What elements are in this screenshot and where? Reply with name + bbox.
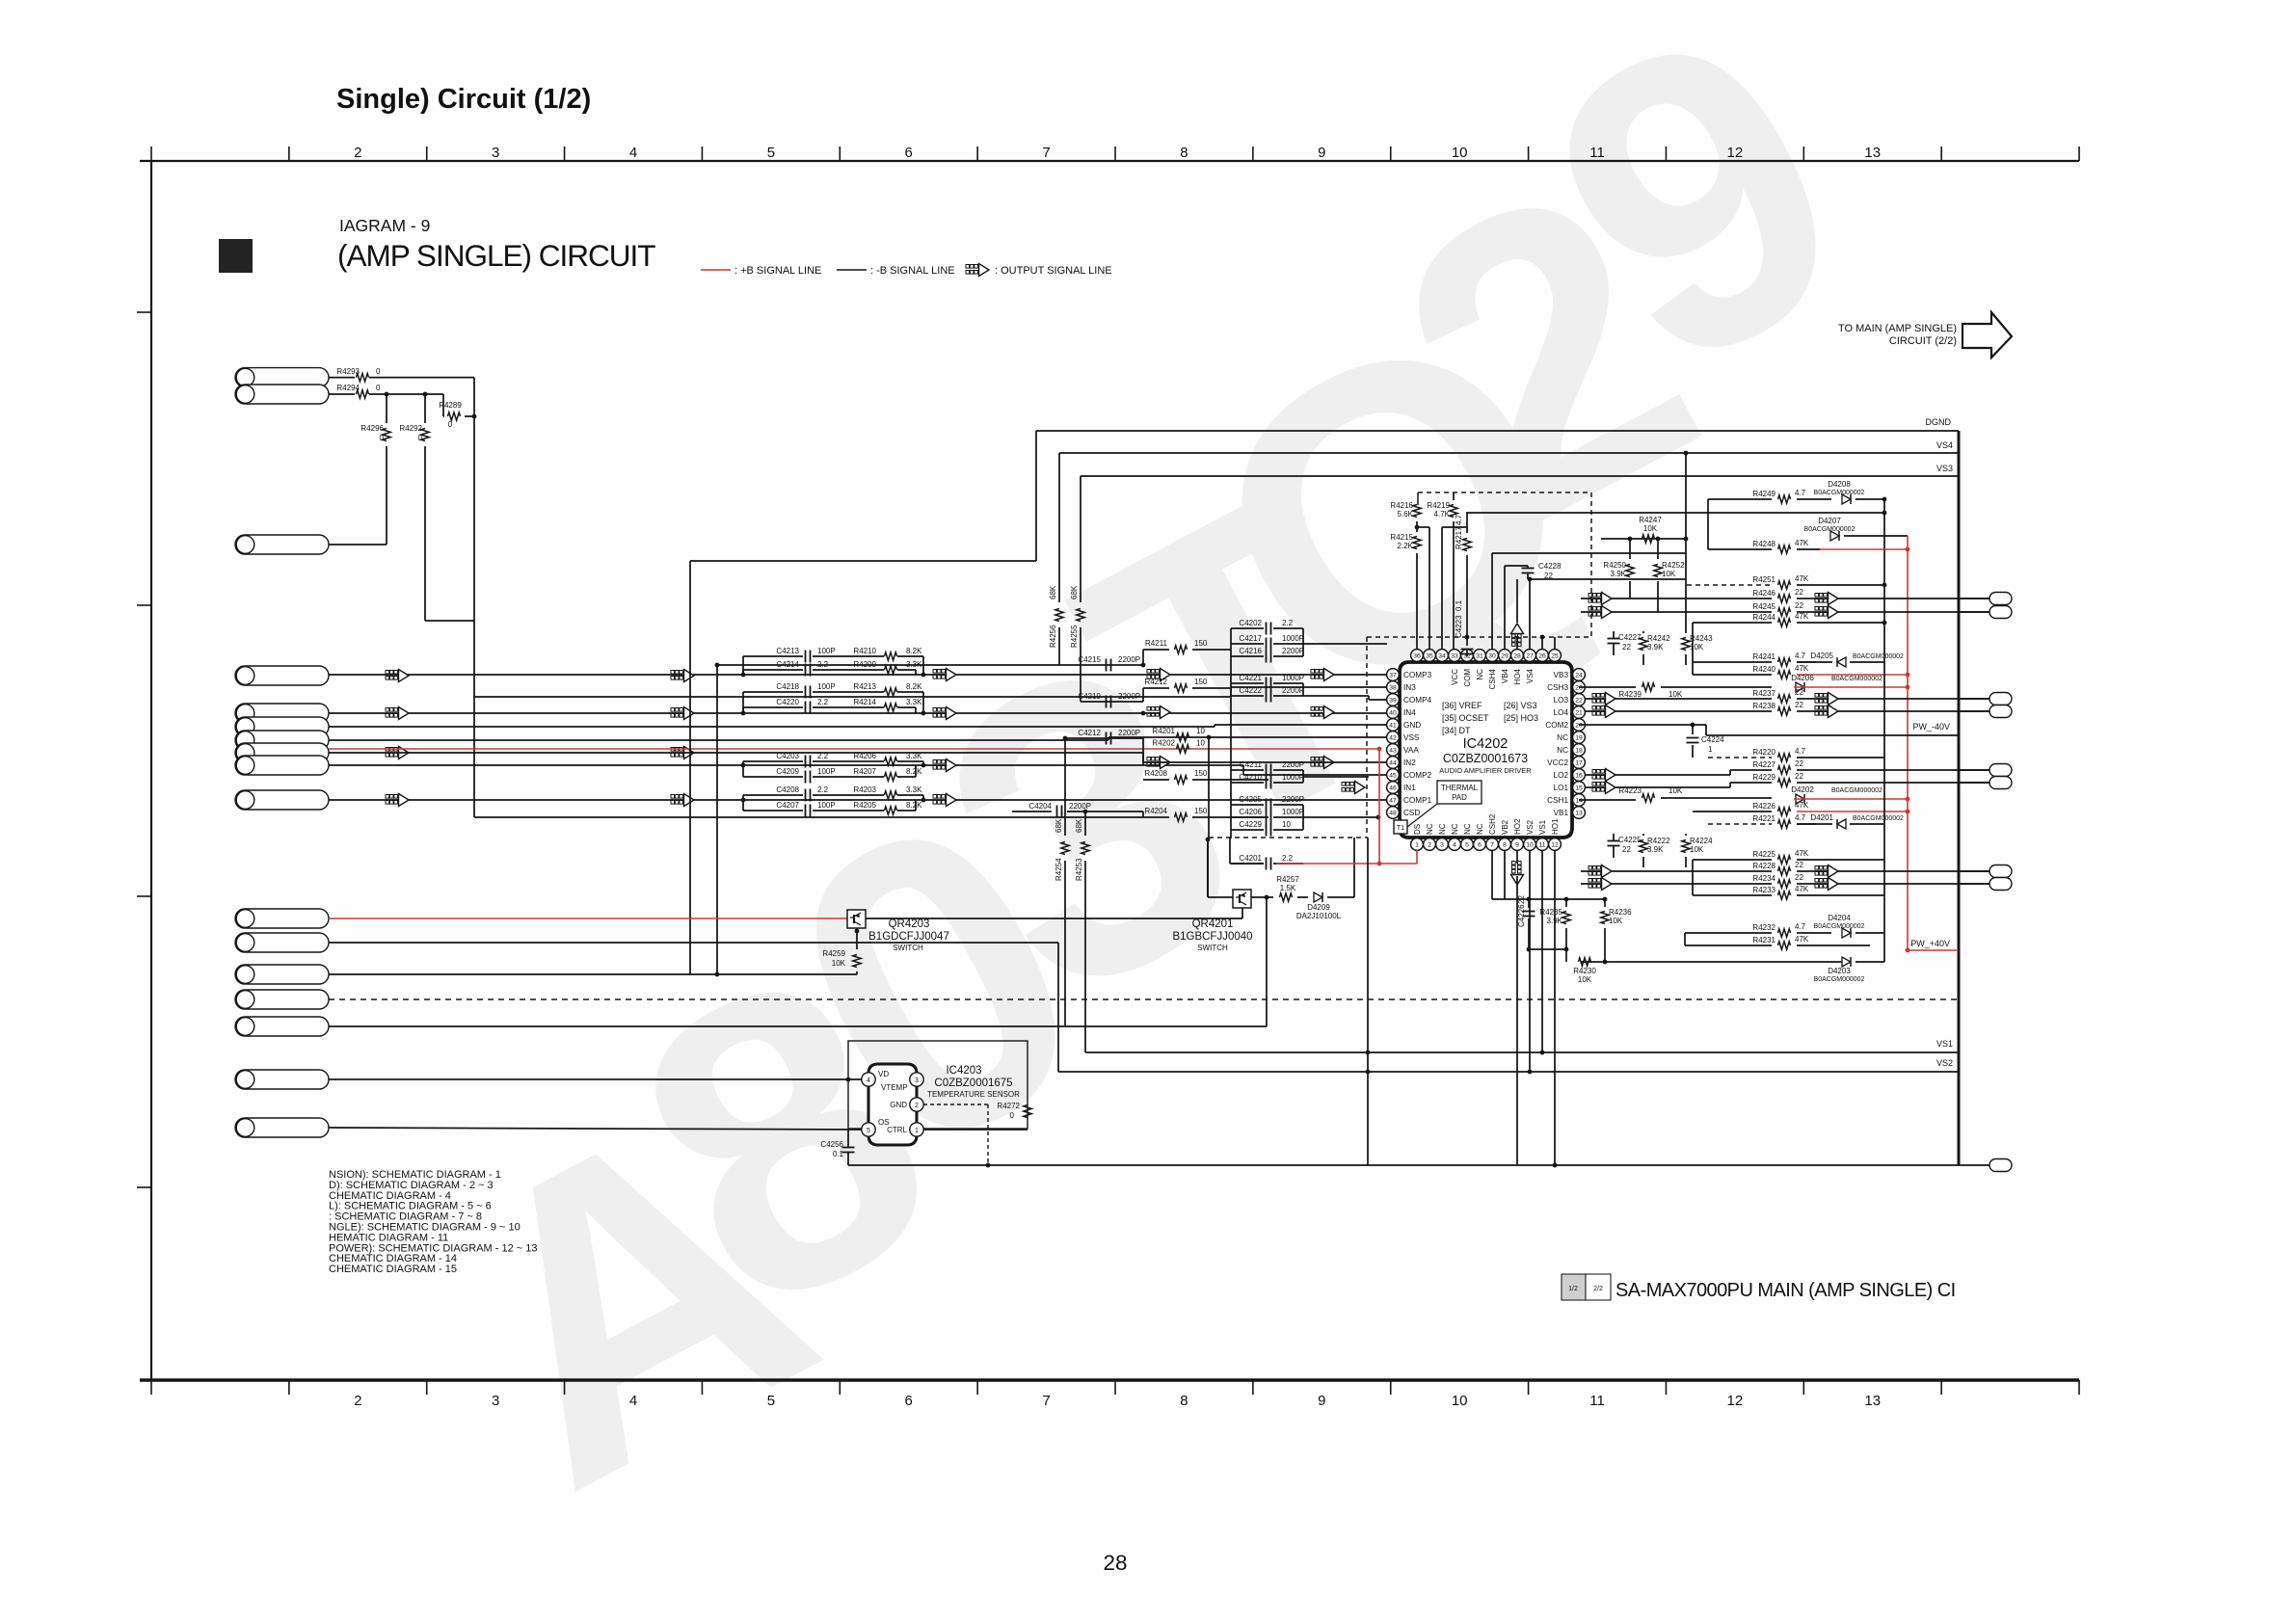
svg-text:C4226: C4226 [1517, 904, 1526, 927]
svg-text:30: 30 [1488, 652, 1496, 659]
svg-text:100P: 100P [817, 682, 836, 691]
svg-text:18: 18 [1575, 747, 1583, 754]
svg-text:4: 4 [629, 145, 637, 161]
svg-text:47K: 47K [1795, 664, 1809, 673]
svg-text:HO2: HO2 [1513, 818, 1522, 835]
svg-text:8.2K: 8.2K [906, 801, 922, 810]
svg-text:10: 10 [1452, 1393, 1468, 1409]
svg-text:VB3: VB3 [1554, 671, 1569, 679]
svg-text:VB4: VB4 [1501, 668, 1509, 683]
svg-text:B0ACGM000002: B0ACGM000002 [1814, 976, 1865, 983]
svg-text:3: 3 [492, 1393, 499, 1409]
svg-text:TEMPERATURE SENSOR: TEMPERATURE SENSOR [927, 1090, 1020, 1099]
svg-text:[35] OCSET: [35] OCSET [1442, 713, 1489, 723]
svg-text:25: 25 [1551, 652, 1559, 659]
svg-text:B0ACGM000002: B0ACGM000002 [1814, 923, 1865, 930]
svg-text:C4225: C4225 [1618, 836, 1642, 844]
svg-text:22: 22 [1795, 601, 1803, 610]
svg-text:R4205: R4205 [853, 801, 876, 810]
svg-text:R4230: R4230 [1573, 967, 1596, 975]
svg-text:16: 16 [1575, 772, 1583, 779]
svg-text:D4203: D4203 [1828, 967, 1851, 975]
svg-text:D4201: D4201 [1810, 813, 1833, 822]
svg-text:DA2J10100L: DA2J10100L [1296, 912, 1342, 920]
svg-text:8: 8 [1180, 1393, 1188, 1409]
svg-text:C4211: C4211 [1240, 760, 1263, 769]
svg-text:0: 0 [448, 420, 453, 429]
svg-text:150: 150 [1194, 807, 1208, 815]
svg-text:10K: 10K [1662, 570, 1676, 578]
svg-text:3: 3 [1440, 841, 1444, 848]
svg-text:47K: 47K [1795, 539, 1809, 547]
svg-text:R4213: R4213 [853, 682, 876, 691]
svg-text:C4215: C4215 [1078, 655, 1101, 664]
svg-text:COM: COM [1463, 669, 1472, 687]
svg-text:C0ZBZ0001673: C0ZBZ0001673 [1443, 752, 1528, 765]
svg-text:34: 34 [1438, 652, 1446, 659]
svg-text:R4227: R4227 [1752, 760, 1775, 769]
svg-text:2.2K: 2.2K [1398, 542, 1414, 550]
svg-text:VCC: VCC [1451, 669, 1459, 685]
svg-text:2.2: 2.2 [817, 785, 829, 794]
svg-text:22: 22 [1795, 772, 1803, 781]
svg-text:11: 11 [1589, 1393, 1605, 1409]
svg-text:R4251: R4251 [1752, 575, 1775, 584]
svg-text:QR4203: QR4203 [889, 918, 930, 930]
svg-text:: -B SIGNAL LINE: : -B SIGNAL LINE [870, 265, 955, 277]
svg-text:100P: 100P [817, 647, 836, 655]
svg-text:11: 11 [1589, 145, 1605, 161]
svg-text:R4255: R4255 [1070, 625, 1079, 648]
svg-text:SWITCH: SWITCH [893, 944, 923, 952]
svg-text:PW_+40V: PW_+40V [1910, 939, 1950, 948]
svg-text:R4212: R4212 [1144, 678, 1167, 686]
svg-text:R4289: R4289 [439, 401, 462, 410]
svg-text:C4219: C4219 [1078, 692, 1101, 701]
svg-text:48: 48 [1389, 810, 1397, 816]
svg-text:R4234: R4234 [1752, 874, 1775, 883]
svg-text:1: 1 [1708, 745, 1713, 754]
svg-text:C4223: C4223 [1455, 615, 1463, 638]
svg-text:R4253: R4253 [1075, 858, 1083, 881]
svg-text:68K: 68K [1075, 818, 1083, 833]
svg-text:3.9K: 3.9K [1547, 917, 1563, 925]
svg-text:R4272: R4272 [997, 1102, 1020, 1110]
svg-text:R4296: R4296 [360, 424, 384, 433]
svg-text:D4209: D4209 [1307, 903, 1330, 912]
svg-text:LO3: LO3 [1554, 696, 1569, 705]
svg-text:VB1: VB1 [1554, 809, 1569, 817]
svg-text:22: 22 [1622, 845, 1631, 854]
svg-text:2200P: 2200P [1118, 729, 1140, 737]
svg-text:47: 47 [1389, 797, 1397, 804]
svg-text:47K: 47K [1795, 801, 1809, 810]
svg-text:6: 6 [905, 1393, 913, 1409]
svg-text:R4236: R4236 [1609, 908, 1632, 917]
svg-text:B0ACGM000002: B0ACGM000002 [1804, 526, 1855, 533]
svg-text:29: 29 [1501, 652, 1508, 659]
svg-text:[25] HO3: [25] HO3 [1504, 713, 1538, 723]
svg-text:4.7: 4.7 [1795, 747, 1806, 756]
svg-text:100P: 100P [817, 767, 836, 776]
svg-text:13: 13 [1864, 145, 1881, 161]
svg-text:CSD: CSD [1403, 809, 1420, 817]
svg-text:15: 15 [1575, 785, 1583, 791]
svg-text:NC: NC [1438, 823, 1447, 835]
svg-text:C4205: C4205 [1239, 795, 1262, 804]
svg-text:2200P: 2200P [1282, 686, 1304, 695]
svg-text:NC: NC [1476, 669, 1484, 680]
svg-text:GND: GND [890, 1101, 907, 1109]
svg-text:0: 0 [376, 384, 381, 392]
svg-text:B0ACGM000002: B0ACGM000002 [1853, 653, 1904, 660]
svg-text:IC4202: IC4202 [1463, 736, 1508, 752]
svg-text:12: 12 [1727, 145, 1744, 161]
svg-text:B0ACGM000002: B0ACGM000002 [1814, 490, 1865, 496]
svg-text:10: 10 [1196, 739, 1205, 748]
svg-text:4.7: 4.7 [1795, 652, 1806, 660]
svg-text:CSH3: CSH3 [1547, 683, 1568, 692]
svg-text:3.9K: 3.9K [1611, 570, 1627, 578]
svg-text:1.5K: 1.5K [1280, 884, 1296, 892]
svg-text:28: 28 [1103, 1551, 1127, 1575]
svg-text:47K: 47K [1795, 612, 1809, 621]
svg-text:5: 5 [1465, 841, 1469, 848]
svg-text:3.3K: 3.3K [906, 785, 922, 794]
svg-text:22: 22 [1795, 588, 1803, 597]
svg-text:68K: 68K [1055, 818, 1063, 833]
svg-text:IN1: IN1 [1403, 784, 1416, 792]
svg-text:R4221: R4221 [1752, 814, 1775, 823]
svg-text:R4216: R4216 [1390, 501, 1413, 510]
svg-text:IAGRAM - 9: IAGRAM - 9 [339, 216, 430, 235]
svg-text:C4204: C4204 [1028, 802, 1052, 811]
svg-text:2/2: 2/2 [1593, 1286, 1603, 1292]
svg-text:R4215: R4215 [1390, 533, 1413, 542]
svg-text:20: 20 [1575, 722, 1583, 729]
svg-text:R4252: R4252 [1662, 561, 1685, 570]
svg-text:R4220: R4220 [1752, 748, 1775, 757]
svg-text:C4220: C4220 [776, 698, 799, 706]
svg-text:C4202: C4202 [1239, 619, 1262, 627]
svg-text:22: 22 [1795, 873, 1803, 882]
svg-text:C4228: C4228 [1538, 562, 1562, 571]
svg-text:QR4201: QR4201 [1192, 918, 1234, 930]
svg-text:DS: DS [1413, 824, 1422, 835]
svg-text:CTRL: CTRL [887, 1126, 907, 1134]
svg-text:24: 24 [1575, 672, 1583, 678]
svg-text:R4294: R4294 [336, 384, 360, 392]
svg-text:VS4: VS4 [1526, 668, 1535, 683]
svg-text:R4257: R4257 [1276, 875, 1299, 884]
svg-text:NC: NC [1557, 733, 1568, 742]
svg-text:R4229: R4229 [1752, 773, 1775, 782]
svg-text:HO4: HO4 [1513, 668, 1522, 684]
svg-text:AUDIO AMPLIFIER DRIVER: AUDIO AMPLIFIER DRIVER [1439, 766, 1532, 775]
svg-text:R4226: R4226 [1752, 802, 1775, 811]
svg-text:1/2: 1/2 [1568, 1286, 1578, 1292]
svg-text:2200P: 2200P [1069, 802, 1091, 811]
svg-text:12: 12 [1727, 1393, 1744, 1409]
svg-text:5: 5 [767, 145, 775, 161]
svg-text:10K: 10K [1609, 917, 1623, 925]
svg-text:3: 3 [915, 1078, 919, 1084]
svg-text:1000P: 1000P [1282, 634, 1304, 643]
svg-text:5: 5 [767, 1393, 775, 1409]
svg-text:10K: 10K [1669, 690, 1683, 699]
svg-text:3.9K: 3.9K [1647, 643, 1664, 652]
svg-text:9: 9 [1318, 1393, 1325, 1409]
svg-text:C4206: C4206 [1239, 808, 1262, 816]
svg-text:[36] VREF: [36] VREF [1442, 701, 1482, 710]
svg-text:21: 21 [1575, 709, 1583, 716]
svg-text:VSS: VSS [1403, 733, 1420, 742]
svg-text:10: 10 [1196, 727, 1205, 735]
svg-text:C4222: C4222 [1239, 686, 1262, 695]
svg-text:22: 22 [1795, 688, 1803, 697]
svg-text:R4228: R4228 [1752, 862, 1775, 870]
svg-text:4: 4 [629, 1393, 637, 1409]
svg-text:10K: 10K [832, 959, 846, 968]
svg-text:C4227: C4227 [1618, 633, 1642, 642]
svg-text:5: 5 [867, 1128, 870, 1134]
svg-text:0: 0 [380, 434, 385, 442]
svg-text:COMP1: COMP1 [1403, 796, 1432, 805]
svg-text:100P: 100P [817, 801, 836, 810]
svg-text:R4256: R4256 [1049, 625, 1057, 648]
svg-text:3: 3 [492, 145, 499, 161]
svg-text:0: 0 [1010, 1111, 1015, 1120]
svg-text:VD: VD [878, 1070, 889, 1078]
svg-text:27: 27 [1526, 652, 1534, 659]
svg-text:13: 13 [1575, 810, 1583, 816]
svg-text:22: 22 [1575, 697, 1583, 704]
svg-text:68K: 68K [1049, 585, 1057, 599]
svg-text:2200P: 2200P [1282, 647, 1304, 655]
svg-text:SA-MAX7000PU MAIN (AMP SINGLE): SA-MAX7000PU MAIN (AMP SINGLE) CI [1615, 1280, 1956, 1301]
svg-text:: OUTPUT SIGNAL LINE: : OUTPUT SIGNAL LINE [995, 265, 1112, 277]
svg-text:R4208: R4208 [1144, 769, 1167, 778]
svg-text:D4202: D4202 [1791, 785, 1814, 794]
svg-text:R4210: R4210 [853, 647, 876, 655]
svg-text:[26] VS3: [26] VS3 [1504, 701, 1537, 710]
svg-text:28: 28 [1513, 652, 1521, 659]
svg-text:R4238: R4238 [1752, 702, 1775, 710]
svg-text:2.2: 2.2 [1282, 619, 1294, 627]
svg-text:43: 43 [1389, 747, 1397, 754]
svg-text:(AMP SINGLE) CIRCUIT: (AMP SINGLE) CIRCUIT [337, 238, 655, 273]
svg-text:68K: 68K [1070, 585, 1079, 599]
svg-text:R4259: R4259 [822, 949, 845, 958]
svg-text:GND: GND [1403, 721, 1421, 730]
svg-text:C4201: C4201 [1239, 854, 1262, 863]
svg-text:[34] DT: [34] DT [1442, 726, 1471, 735]
svg-text:PW_-40V: PW_-40V [1912, 722, 1950, 732]
svg-text:CIRCUIT (2/2): CIRCUIT (2/2) [1889, 335, 1957, 347]
svg-text:THERMAL: THERMAL [1441, 784, 1479, 792]
svg-text:14: 14 [1575, 797, 1583, 804]
svg-text:5.6K: 5.6K [1398, 510, 1414, 519]
svg-text:2200P: 2200P [1118, 655, 1140, 664]
svg-text:C0ZBZ0001675: C0ZBZ0001675 [934, 1078, 1012, 1089]
svg-text:26: 26 [1538, 652, 1546, 659]
svg-text:33: 33 [1451, 652, 1458, 659]
svg-text:R4225: R4225 [1752, 850, 1775, 859]
svg-text:7: 7 [1042, 1393, 1050, 1409]
svg-text:C4256: C4256 [820, 1140, 843, 1149]
svg-text:: +B SIGNAL LINE: : +B SIGNAL LINE [734, 265, 821, 277]
svg-text:C4217: C4217 [1239, 634, 1262, 643]
svg-text:2.2: 2.2 [817, 698, 829, 706]
svg-text:8: 8 [1180, 145, 1188, 161]
svg-text:19: 19 [1575, 734, 1583, 741]
svg-text:CSH4: CSH4 [1488, 668, 1497, 689]
svg-text:VS4: VS4 [1936, 440, 1953, 450]
svg-text:1000P: 1000P [1282, 808, 1304, 816]
svg-text:C4221: C4221 [1239, 674, 1262, 682]
svg-text:COMP2: COMP2 [1403, 771, 1432, 780]
svg-text:6: 6 [905, 145, 913, 161]
svg-text:22: 22 [1517, 895, 1526, 904]
svg-text:C4208: C4208 [776, 785, 799, 794]
svg-text:38: 38 [1389, 684, 1397, 691]
svg-text:R4249: R4249 [1752, 490, 1775, 498]
svg-text:31: 31 [1476, 652, 1483, 659]
svg-text:22: 22 [1795, 861, 1803, 869]
svg-text:150: 150 [1194, 678, 1208, 686]
svg-text:150: 150 [1194, 769, 1208, 778]
svg-text:CSH2: CSH2 [1488, 813, 1497, 835]
svg-text:2: 2 [354, 1393, 361, 1409]
svg-text:1000P: 1000P [1282, 773, 1304, 782]
svg-text:4: 4 [1453, 841, 1456, 848]
svg-text:COMP3: COMP3 [1403, 671, 1432, 679]
svg-text:41: 41 [1389, 722, 1397, 729]
svg-text:R4211: R4211 [1145, 639, 1168, 648]
svg-text:NC: NC [1476, 823, 1484, 835]
svg-text:B1GDCFJJ0047: B1GDCFJJ0047 [868, 931, 949, 943]
svg-text:B0ACGM000002: B0ACGM000002 [1853, 815, 1904, 822]
svg-text:NC: NC [1426, 823, 1434, 835]
svg-text:COM2: COM2 [1545, 721, 1568, 730]
svg-text:PAD: PAD [1452, 793, 1467, 802]
svg-text:C4216: C4216 [1239, 647, 1262, 655]
svg-text:C4209: C4209 [776, 767, 799, 776]
svg-text:35: 35 [1426, 652, 1433, 659]
svg-text:4: 4 [867, 1078, 870, 1084]
svg-text:6: 6 [1478, 841, 1482, 848]
svg-text:IN3: IN3 [1403, 683, 1416, 692]
svg-text:C4229: C4229 [1239, 820, 1262, 829]
svg-text:1: 1 [915, 1128, 919, 1134]
svg-text:SWITCH: SWITCH [1197, 944, 1228, 952]
svg-text:VS1: VS1 [1538, 819, 1547, 835]
svg-text:42: 42 [1389, 734, 1397, 741]
svg-text:LO1: LO1 [1554, 784, 1569, 792]
svg-text:10: 10 [1282, 820, 1291, 829]
svg-text:23: 23 [1575, 684, 1583, 691]
svg-text:0: 0 [376, 367, 381, 376]
svg-text:R4203: R4203 [853, 785, 876, 794]
svg-text:10K: 10K [1578, 975, 1592, 984]
svg-text:NC: NC [1557, 746, 1568, 755]
svg-text:4.7K: 4.7K [1434, 510, 1451, 519]
svg-text:R4242: R4242 [1647, 634, 1670, 643]
svg-text:45: 45 [1389, 772, 1397, 779]
svg-text:R4232: R4232 [1752, 923, 1775, 932]
svg-text:VTEMP: VTEMP [881, 1083, 908, 1092]
svg-text:R4223: R4223 [1618, 786, 1642, 795]
svg-text:R4239: R4239 [1618, 690, 1642, 699]
svg-text:8.2K: 8.2K [906, 682, 922, 691]
svg-text:10K: 10K [1669, 786, 1683, 795]
svg-text:C4207: C4207 [776, 801, 799, 810]
svg-text:22: 22 [1795, 759, 1803, 768]
svg-text:VAA: VAA [1403, 746, 1419, 755]
svg-text:2.2: 2.2 [1282, 854, 1294, 863]
svg-text:DGND: DGND [1926, 417, 1952, 427]
svg-text:VS3: VS3 [1936, 464, 1953, 473]
svg-text:LO4: LO4 [1554, 708, 1569, 717]
svg-text:R4241: R4241 [1752, 652, 1775, 661]
svg-text:0.1: 0.1 [833, 1150, 844, 1158]
svg-text:39: 39 [1389, 697, 1397, 704]
svg-text:D4208: D4208 [1828, 480, 1851, 489]
svg-text:R4217: R4217 [1455, 526, 1463, 549]
svg-text:8.2K: 8.2K [906, 767, 922, 776]
svg-text:NC: NC [1451, 823, 1459, 835]
svg-text:R4245: R4245 [1752, 602, 1775, 611]
svg-text:10: 10 [1526, 841, 1534, 848]
svg-text:VS2: VS2 [1526, 819, 1535, 835]
svg-text:TO MAIN (AMP SINGLE): TO MAIN (AMP SINGLE) [1838, 323, 1957, 334]
svg-text:R4247: R4247 [1639, 516, 1662, 524]
svg-text:13: 13 [1864, 1393, 1881, 1409]
svg-text:R4244: R4244 [1752, 613, 1775, 622]
svg-text:R4250: R4250 [1603, 561, 1626, 570]
svg-text:4.7: 4.7 [1455, 514, 1463, 525]
svg-text:R4222: R4222 [1647, 837, 1670, 845]
svg-text:11: 11 [1538, 841, 1545, 848]
svg-text:COMP4: COMP4 [1403, 696, 1432, 705]
svg-text:46: 46 [1389, 785, 1397, 791]
svg-text:40: 40 [1389, 709, 1397, 716]
svg-text:R4207: R4207 [853, 767, 876, 776]
svg-text:R4201: R4201 [1152, 727, 1175, 735]
svg-text:CHEMATIC DIAGRAM - 15: CHEMATIC DIAGRAM - 15 [329, 1264, 457, 1275]
svg-text:R4202: R4202 [1152, 739, 1175, 748]
svg-text:36: 36 [1413, 652, 1421, 659]
svg-text:NC: NC [1463, 823, 1472, 835]
svg-text:1: 1 [1415, 841, 1419, 848]
svg-text:HO1: HO1 [1551, 818, 1560, 835]
svg-text:2200P: 2200P [1282, 795, 1304, 804]
svg-text:C4213: C4213 [776, 647, 799, 655]
svg-text:1000P: 1000P [1282, 674, 1304, 682]
svg-text:17: 17 [1575, 759, 1583, 766]
svg-text:Single) Circuit (1/2): Single) Circuit (1/2) [336, 84, 591, 115]
svg-text:B1GBCFJJ0040: B1GBCFJJ0040 [1172, 931, 1252, 943]
svg-text:C4224: C4224 [1701, 735, 1724, 744]
svg-text:37: 37 [1389, 672, 1397, 678]
svg-text:VS1: VS1 [1936, 1039, 1953, 1049]
svg-text:22: 22 [1795, 701, 1803, 709]
svg-text:4.7: 4.7 [1795, 813, 1806, 822]
svg-text:R4246: R4246 [1752, 589, 1775, 598]
svg-text:12: 12 [1551, 841, 1559, 848]
svg-text:9: 9 [1515, 841, 1519, 848]
svg-text:44: 44 [1389, 759, 1397, 766]
